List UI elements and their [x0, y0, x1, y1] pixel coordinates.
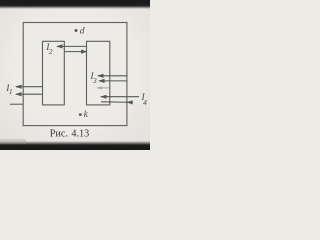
arrowhead I3 lower (points left) [98, 79, 105, 83]
winding 1 (left rectangle) [43, 41, 65, 105]
svg-text:d: d [80, 26, 85, 36]
arrowhead I1 lower [15, 92, 22, 96]
svg-text:Рис. 4.13: Рис. 4.13 [50, 129, 89, 140]
arrowhead I1 upper [15, 85, 22, 89]
wire I1 upper [16, 86, 43, 88]
wire I4 upper [101, 96, 139, 98]
wire I3 upper [98, 75, 127, 77]
wire I3 inner (faint, inside winding 2) [96, 86, 109, 89]
node k [79, 110, 89, 120]
arrowhead I2 lower (points right) [81, 50, 88, 54]
wire I3 lower [99, 80, 127, 82]
node d [75, 26, 85, 36]
wire I4 lower [101, 101, 133, 104]
paper background [0, 0, 150, 150]
wire I2 lower [64, 51, 85, 53]
arrowhead I3 upper (points left) [97, 74, 104, 78]
wire I2 upper [58, 45, 87, 47]
arrowhead I4 lower (points left) [126, 100, 132, 104]
outer box (network frame) [23, 23, 127, 126]
wire I1 lower [16, 93, 43, 95]
winding 2 (right rectangle) [87, 41, 110, 105]
arrowhead I2 upper (points left) [56, 44, 63, 48]
arrowhead I4 upper (points left) [100, 95, 106, 99]
wire stub lower-left [10, 103, 24, 105]
